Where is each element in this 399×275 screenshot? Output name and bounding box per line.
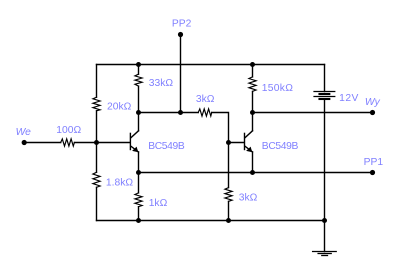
wire Q2 collector up	[252, 113, 254, 131]
svg-text:150kΩ: 150kΩ	[262, 83, 294, 94]
wire left vertical lower (We node to 1.8k)	[96, 143, 98, 173]
svg-text:BC549B: BC549B	[148, 141, 185, 152]
transistor Q1 base bar	[129, 133, 131, 149]
wire ground drop	[324, 221, 326, 252]
wire 33k top stub	[138, 65, 140, 75]
svg-text:33kΩ: 33kΩ	[149, 78, 174, 89]
wire left vertical bottom (1.8k to bottom rail)	[96, 187, 98, 220]
wire Q1 emitter node to 1k	[138, 173, 140, 193]
svg-text:PP2: PP2	[172, 19, 192, 30]
transistor Q2 base bar	[244, 133, 246, 149]
wire 3k to corner then down to Q2 base node	[212, 113, 229, 143]
node junction Q1 collector	[136, 110, 141, 115]
svg-text:1.8kΩ: 1.8kΩ	[106, 177, 133, 188]
wire We terminal to 100Ω	[24, 142, 61, 144]
transistor Q2 emitter diagonal	[245, 146, 252, 152]
node junction top rail / 150k	[250, 62, 255, 67]
svg-text:1kΩ: 1kΩ	[149, 198, 168, 209]
resistor 1.8kΩ	[93, 172, 100, 187]
wire Q2 base node to base lead	[229, 142, 245, 144]
transistor Q2 collector diagonal	[245, 131, 252, 138]
node Wy terminal dot	[370, 110, 375, 115]
battery V1 12V	[314, 91, 335, 93]
wire emitter row y172 (Q1 emitter to PP1)	[139, 172, 373, 174]
wire battery top (top rail corner down to battery)	[324, 65, 326, 92]
node We terminal dot	[22, 140, 27, 145]
wire 100Ω to We node	[74, 142, 96, 144]
wire 33k bottom to collector node	[138, 86, 140, 112]
wire left vertical mid (20k to We node)	[96, 111, 98, 143]
svg-text:BC549B: BC549B	[262, 141, 299, 152]
node junction top rail / 33k	[136, 62, 141, 67]
node junction Q2 collector	[250, 110, 255, 115]
wire left vertical upper (top rail to 20k)	[96, 65, 98, 98]
node PP2 terminal dot	[178, 32, 183, 37]
wire 3k right to bottom rail	[228, 201, 230, 220]
svg-text:20kΩ: 20kΩ	[107, 101, 132, 112]
svg-text:3kΩ: 3kΩ	[239, 193, 258, 204]
wire 1k to bottom rail	[138, 207, 140, 221]
wire Q1 emitter down	[138, 152, 140, 173]
resistor 3kΩ (right, vertical)	[225, 188, 232, 202]
wire Q2 base node down to 3k	[228, 143, 230, 188]
node junction Q2 emitter	[250, 170, 255, 175]
node junction We / base	[94, 140, 99, 145]
wire bottom rail	[97, 220, 325, 222]
wire Q2 emitter down	[252, 152, 254, 173]
node junction PP2 / row y112	[178, 110, 183, 115]
resistor 33kΩ	[135, 74, 142, 86]
transistor Q2 emitter arrowhead	[246, 147, 252, 153]
wire collector node to Q1 collector	[138, 113, 140, 131]
wire We node to Q1 base	[97, 142, 130, 144]
wire 150k bottom to collector node	[252, 91, 254, 112]
transistor Q1 emitter diagonal	[131, 146, 139, 152]
node junction Q2 base	[226, 140, 231, 145]
svg-text:We: We	[16, 127, 32, 138]
node junction Q1 emitter	[136, 170, 141, 175]
resistor 150kΩ	[249, 77, 256, 92]
wire top rail	[97, 64, 325, 66]
svg-text:12V: 12V	[339, 93, 359, 104]
node junction bottom rail / 3k	[226, 218, 231, 223]
wire node row y112 (collector node to 3k)	[139, 112, 199, 114]
resistor 20kΩ	[93, 97, 100, 111]
resistor 1kΩ	[135, 193, 142, 207]
transistor Q1 emitter arrowhead	[132, 147, 138, 153]
wire 150k top stub	[252, 65, 254, 77]
svg-text:3kΩ: 3kΩ	[196, 94, 215, 105]
transistor Q1 collector diagonal	[131, 131, 139, 138]
resistor 100Ω	[61, 139, 75, 146]
wire PP2 drop	[180, 35, 182, 113]
svg-text:100Ω: 100Ω	[56, 125, 81, 136]
wire Wy row y112 (Q2 collector node to Wy terminal)	[253, 112, 373, 114]
node PP1 terminal dot	[370, 170, 375, 175]
svg-text:PP1: PP1	[364, 157, 384, 168]
wire battery bottom down to bottom rail	[324, 100, 326, 221]
node junction bottom rail / 1k	[136, 218, 141, 223]
svg-text:Wy: Wy	[365, 97, 381, 108]
ground	[313, 251, 337, 253]
resistor 3kΩ (top, horizontal)	[198, 109, 212, 116]
node junction bottom rail / battery-ground	[322, 218, 327, 223]
